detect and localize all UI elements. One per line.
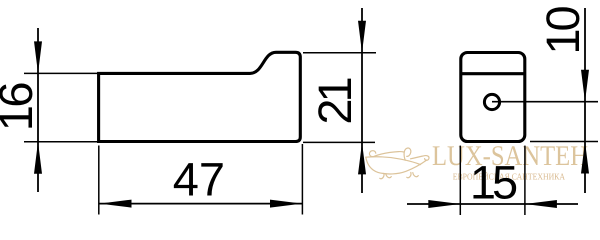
dimension 16 arrow top [34,41,42,73]
dimension 15 line [407,203,578,205]
front view divider line [461,72,525,75]
dimension 15 extension left [459,146,461,215]
dimension 10 arrow top [581,70,589,102]
dimension 10 arrow bottom [581,142,589,174]
dimension 15 extension right [524,146,526,215]
dimension 21 extension top [303,52,376,54]
dimension 10 extension bottom [530,141,598,143]
dimension 47 arrow right [270,200,302,208]
dimension 47 extension right [301,144,303,215]
dimension 21 arrow bottom [358,142,366,174]
dimension 10 line [584,8,586,193]
dimension 15 arrow right [525,200,557,208]
svg-text:15: 15 [470,155,517,208]
front view body [461,53,525,142]
dimension 16 extension top [24,72,98,74]
dimension 47 line [100,203,303,205]
dimension 21 extension bottom [303,141,375,143]
dimension 21 arrow top [358,21,366,53]
svg-text:47: 47 [173,153,225,206]
dimension 16 line [37,28,39,192]
hole circle [484,94,499,109]
dimension 47 arrow left [100,200,132,208]
dimension 15 arrow left [428,200,460,208]
svg-text:21: 21 [308,79,361,125]
svg-text:16: 16 [0,83,42,132]
hook side view outline [99,52,301,141]
dimension 16 extension bottom [24,141,98,143]
dimension 16 arrow bottom [34,142,42,174]
hole leader line [492,101,598,103]
dimension 47 extension left [98,146,100,215]
dimension 21 line [361,8,363,193]
watermark bathtub logo [366,148,429,179]
svg-text:10: 10 [536,7,589,55]
